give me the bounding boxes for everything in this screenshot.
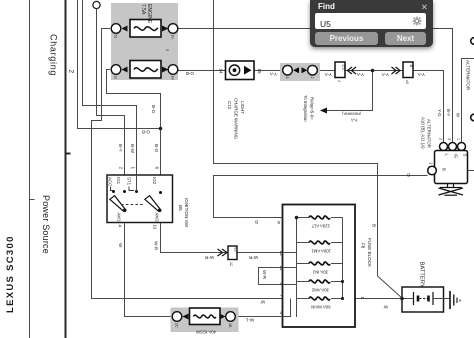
node O-B junction <box>159 127 163 131</box>
svg-text:B-Y: B-Y <box>446 109 451 116</box>
wire fusible link W-L to fuse block pin 4 <box>235 316 283 318</box>
svg-text:120A ALT: 120A ALT <box>311 224 330 229</box>
svg-text:IGNITION SW: IGNITION SW <box>184 198 189 228</box>
svg-text:IG2: IG2 <box>152 177 157 185</box>
svg-text:B-O: B-O <box>154 144 159 153</box>
svg-text:1B: 1B <box>228 323 232 328</box>
svg-text:1: 1 <box>360 297 365 300</box>
wire section divider <box>66 0 71 338</box>
battery <box>402 287 450 312</box>
fusible link gray panel 40A <box>171 308 239 335</box>
connector stub right top <box>471 38 474 45</box>
wire fuse2 left B-O to IG2 <box>107 70 161 194</box>
svg-text:LEXUS SC300: LEXUS SC300 <box>5 235 16 313</box>
svg-text:W: W <box>383 305 388 310</box>
svg-text:Power Source: Power Source <box>41 195 51 254</box>
svg-text:B: B <box>442 168 447 171</box>
svg-text:B-W: B-W <box>130 144 135 154</box>
node battery junction <box>400 297 404 301</box>
svg-text:ENGINE: ENGINE <box>146 4 152 24</box>
svg-text:Y-G: Y-G <box>437 109 442 117</box>
ignition switch B5 <box>107 175 173 223</box>
svg-text:2: 2 <box>310 77 314 79</box>
svg-text:FUSE BLOCK: FUSE BLOCK <box>367 238 372 268</box>
svg-text:CHARGE WARNING: CHARGE WARNING <box>234 98 239 140</box>
svg-text:1: 1 <box>429 162 434 165</box>
svg-text:15: 15 <box>257 69 262 75</box>
svg-text:W-R: W-R <box>154 241 159 251</box>
junction connector B <box>392 62 415 84</box>
svg-text:B-Y: B-Y <box>118 144 123 152</box>
svg-text:7.5A: 7.5A <box>140 4 146 15</box>
svg-text:2: 2 <box>439 138 443 140</box>
wire feed B to ST1 <box>83 0 137 193</box>
alternator box <box>428 151 468 184</box>
svg-text:40A IGSW: 40A IGSW <box>195 330 216 335</box>
svg-text:B: B <box>407 173 410 178</box>
svg-text:Relay<5-6>: Relay<5-6> <box>310 97 315 120</box>
svg-text:5: 5 <box>277 220 280 225</box>
svg-text:3: 3 <box>448 138 452 140</box>
wire fuse block to battery <box>343 298 450 300</box>
wire fuse1 left to fuse block pin 7 <box>92 29 283 299</box>
svg-text:E1: E1 <box>234 248 238 252</box>
svg-text:Charging: Charging <box>49 34 59 76</box>
svg-text:F8: F8 <box>361 243 366 249</box>
wire branch to integration relay <box>327 71 373 111</box>
svg-text:B: B <box>409 65 414 68</box>
connector circle to other page <box>93 1 100 8</box>
svg-text:ACC: ACC <box>108 177 113 186</box>
fuse block F8 <box>283 205 356 328</box>
wire U loop pin 14 to pin 6 <box>259 268 283 285</box>
svg-text:Y-A: Y-A <box>417 72 425 77</box>
svg-text:2C: 2C <box>175 323 179 328</box>
arrow to integration relay <box>320 108 327 114</box>
junction connector IE1 <box>218 246 238 266</box>
svg-text:2: 2 <box>119 167 124 170</box>
svg-text:A10 (B), A11 (A): A10 (B), A11 (A) <box>421 117 426 149</box>
svg-text:12: 12 <box>229 262 233 266</box>
svg-text:30A INJ: 30A INJ <box>313 270 328 275</box>
svg-text:B5: B5 <box>178 205 183 211</box>
svg-text:To Integration: To Integration <box>303 95 308 122</box>
svg-text:100A AM1: 100A AM1 <box>311 249 331 254</box>
svg-text:IG: IG <box>454 154 459 159</box>
wire W from right edge to alternator S <box>462 59 474 144</box>
wire IG sw pin 4 W to fusible link <box>125 223 173 317</box>
svg-text:S: S <box>463 154 468 157</box>
wire alternator B to fuse block pin 5 <box>214 176 428 218</box>
svg-text:O-B: O-B <box>186 71 194 76</box>
svg-text:B-O: B-O <box>151 105 156 114</box>
svg-text:B: B <box>372 224 377 227</box>
svg-text:O-B: O-B <box>142 130 150 135</box>
fuse gray panel top <box>111 3 178 80</box>
svg-text:IG1: IG1 <box>116 177 121 185</box>
svg-text:W: W <box>118 243 123 248</box>
svg-text:W: W <box>260 300 265 305</box>
svg-text:(REMARK): (REMARK) <box>341 112 361 116</box>
svg-text:1: 1 <box>457 138 461 140</box>
svg-text:3J: 3J <box>114 76 118 80</box>
svg-text:4: 4 <box>337 80 341 82</box>
svg-text:11: 11 <box>153 225 158 230</box>
svg-text:14: 14 <box>219 69 224 75</box>
svg-text:ST1: ST1 <box>127 177 132 186</box>
svg-text:60A MAIN: 60A MAIN <box>311 305 330 310</box>
svg-text:Y-A: Y-A <box>356 72 364 77</box>
wire left page border <box>30 0 35 338</box>
svg-text:Y-A: Y-A <box>351 118 358 123</box>
ground battery <box>450 291 460 309</box>
svg-text:1: 1 <box>131 167 136 170</box>
svg-text:6: 6 <box>155 167 160 170</box>
wire fuse2 right charge light Y-A to alternator L <box>178 71 444 144</box>
svg-text:1H: 1H <box>171 35 175 40</box>
wire fuse1 right to alternator IG <box>178 29 453 144</box>
svg-text:W: W <box>456 113 461 118</box>
charge warning light C12 <box>226 61 255 80</box>
svg-text:C12: C12 <box>227 101 232 110</box>
svg-text:Y-A: Y-A <box>324 72 332 77</box>
svg-text:ALTERNATOR: ALTERNATOR <box>427 119 432 148</box>
node Y-A junction <box>371 69 375 73</box>
svg-text:B: B <box>255 220 258 225</box>
wire from circle connector to IG1 <box>97 8 125 193</box>
svg-text:W-R: W-R <box>262 270 267 280</box>
svg-text:LIGHT: LIGHT <box>240 101 245 114</box>
wire feed A to O-B junction <box>78 0 161 129</box>
connector stub right bottom <box>471 114 474 121</box>
svg-text:C3: C3 <box>341 65 346 71</box>
svg-text:W-R: W-R <box>248 255 258 260</box>
svg-text:AM1: AM1 <box>117 213 122 223</box>
svg-text:W-L: W-L <box>245 318 254 323</box>
wire IG sw pin 11 W-R to fuse block pin 13 <box>161 223 283 253</box>
svg-text:5J: 5J <box>114 35 118 39</box>
fuse F1 7.5A ENGINE <box>111 4 178 39</box>
svg-text:ALTERNATOR: ALTERNATOR <box>466 60 471 91</box>
svg-text:Y-A: Y-A <box>269 72 277 77</box>
svg-text:AM2: AM2 <box>155 213 160 223</box>
svg-text:8: 8 <box>285 77 289 79</box>
wire main B+ from top to battery <box>214 0 378 276</box>
svg-text:2: 2 <box>68 70 75 74</box>
svg-text:30A AM2: 30A AM2 <box>311 288 329 293</box>
svg-text:4: 4 <box>118 225 123 228</box>
svg-text:W-R: W-R <box>204 255 214 260</box>
svg-text:BATTERY: BATTERY <box>419 262 425 288</box>
fuse F2 <box>111 49 178 80</box>
wire alternator box output right <box>468 170 474 172</box>
junction connector IC3 <box>335 62 356 82</box>
svg-text:1H: 1H <box>171 76 175 81</box>
svg-text:x3: x3 <box>405 80 409 84</box>
find dialog <box>310 0 433 47</box>
wire diagonal B+ into battery <box>378 276 403 299</box>
alternator connector pins <box>439 138 466 151</box>
connector pair gray panel <box>280 63 320 81</box>
svg-text:Y-A: Y-A <box>381 72 389 77</box>
ground alternator <box>439 184 464 196</box>
